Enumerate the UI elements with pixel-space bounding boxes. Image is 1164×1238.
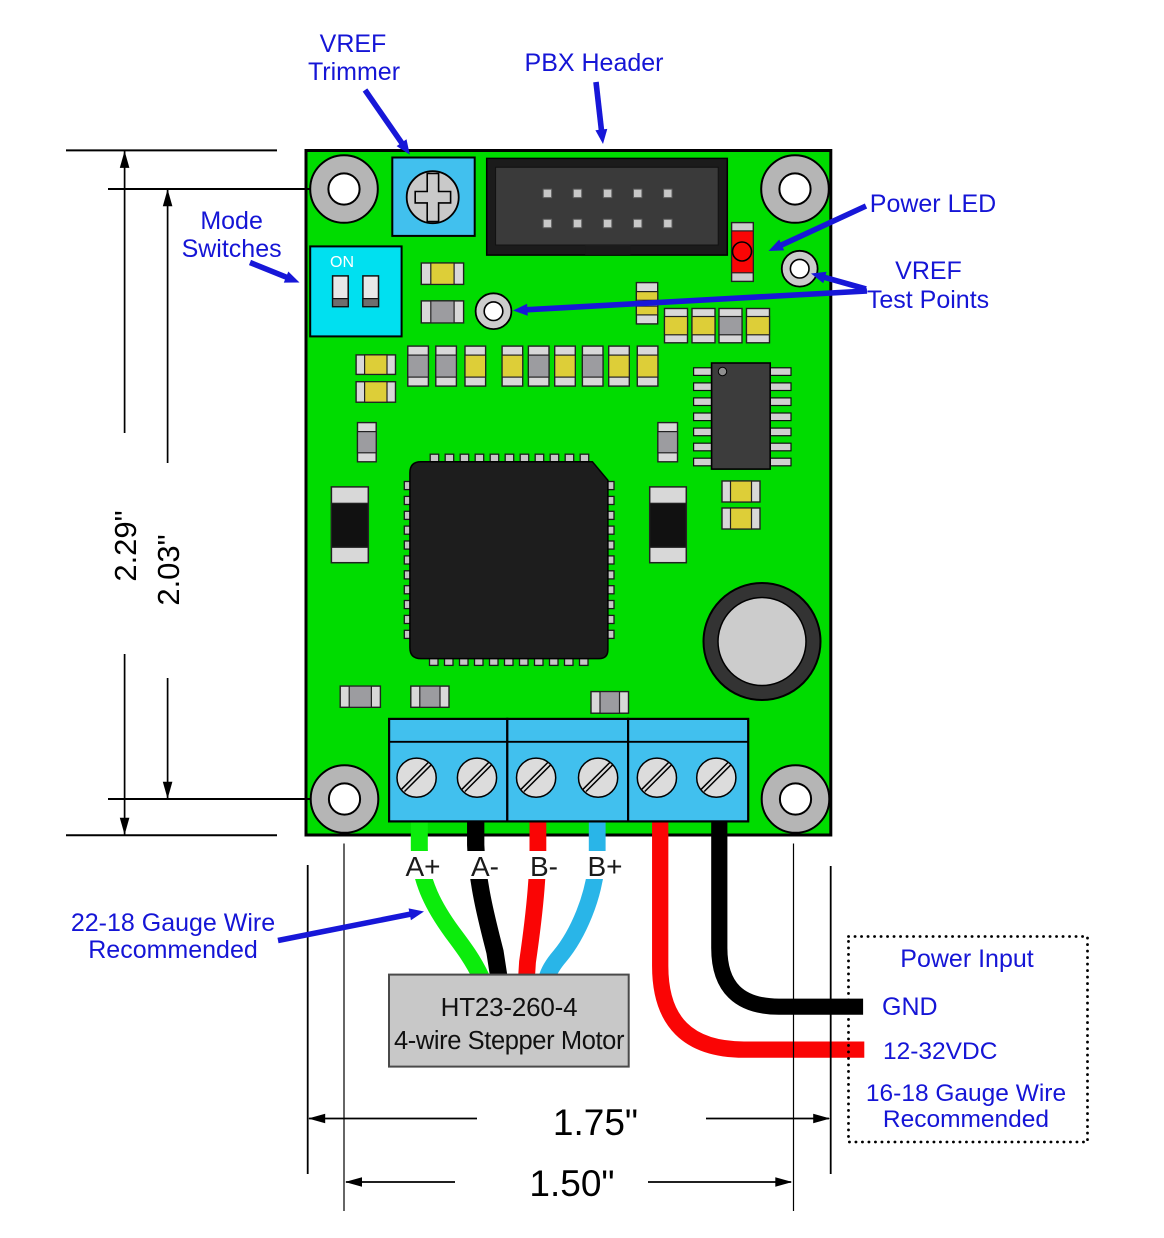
wire B+ cyan bbox=[547, 821, 597, 978]
header pin row1 col1 bbox=[543, 189, 551, 197]
VREF test point right TP2 bbox=[782, 251, 818, 287]
VREF trimmer R-trim bbox=[392, 158, 474, 236]
capacitor C1 yellow bbox=[421, 263, 463, 284]
extension line board left edge bbox=[307, 865, 309, 1174]
svg-text:Trimmer: Trimmer bbox=[308, 58, 400, 86]
capacitor C6 bbox=[747, 309, 770, 343]
arrow to right test point bbox=[811, 272, 866, 289]
wire power GND black bbox=[719, 821, 863, 1007]
SMD R/C row1 n5 bbox=[528, 346, 549, 386]
svg-text:VREF: VREF bbox=[895, 257, 962, 285]
SMD R/C row1 n9 bbox=[637, 346, 658, 386]
svg-text:22-18 Gauge Wire: 22-18 Gauge Wire bbox=[71, 909, 275, 937]
capacitor C12 yellow bbox=[722, 508, 760, 529]
IC U2 SOIC-14 bbox=[694, 363, 791, 469]
header pin row2 col3 bbox=[603, 219, 611, 227]
svg-text:Power LED: Power LED bbox=[870, 190, 996, 218]
dimension 1.75 inch bbox=[308, 1102, 830, 1143]
svg-text:Recommended: Recommended bbox=[883, 1106, 1049, 1133]
SMD R/C row1 n6 bbox=[555, 346, 576, 386]
terminal block 2 bbox=[507, 719, 628, 822]
dimension: board top edge extension bbox=[66, 149, 277, 151]
label B+ bbox=[583, 851, 627, 882]
diode D2 black bbox=[331, 487, 368, 563]
capacitor C3 bbox=[665, 309, 688, 343]
capacitor C7 yellow bbox=[356, 355, 395, 375]
arrow to trimmer bbox=[365, 90, 410, 155]
dimension line 2.03 inch bbox=[151, 189, 186, 798]
terminal screw 1 bbox=[397, 758, 436, 797]
terminal screw 2 bbox=[457, 758, 496, 797]
resistor R1 gray bbox=[421, 301, 463, 323]
wire B- red bbox=[527, 821, 538, 978]
extension line left hole center bbox=[343, 844, 345, 1212]
svg-text:2.29": 2.29" bbox=[108, 510, 143, 581]
power LED D1 bbox=[732, 223, 754, 282]
svg-text:16-18 Gauge Wire: 16-18 Gauge Wire bbox=[866, 1080, 1066, 1107]
SMD R/C row1 n1 bbox=[408, 346, 429, 386]
stepper motor box bbox=[389, 975, 629, 1067]
header pin row1 col3 bbox=[603, 189, 611, 197]
mounting hole 2 bbox=[761, 155, 829, 223]
PCB board bbox=[306, 151, 831, 836]
terminal screw 5 bbox=[637, 758, 676, 797]
arrow to mode switches bbox=[250, 263, 300, 283]
dimension line 2.29 inch bbox=[108, 151, 143, 835]
power input dotted box bbox=[849, 937, 1088, 1143]
header pin row2 col4 bbox=[634, 219, 642, 227]
header pin row1 col2 bbox=[573, 189, 581, 197]
svg-text:Switches: Switches bbox=[182, 235, 282, 263]
extension line board right edge bbox=[830, 866, 832, 1174]
svg-text:Test Points: Test Points bbox=[867, 286, 989, 314]
arrow to left test point bbox=[513, 291, 867, 316]
SMD R/C row1 n4 bbox=[502, 346, 523, 386]
svg-text:PBX Header: PBX Header bbox=[525, 49, 664, 77]
arrow to motor wires bbox=[278, 908, 424, 940]
resistor R4 gray bbox=[591, 692, 629, 714]
capacitor C9 gray bbox=[358, 423, 377, 462]
extension line right hole center bbox=[793, 844, 795, 1212]
extension line bottom hole bbox=[108, 798, 313, 800]
terminal block 1 bbox=[389, 719, 507, 822]
terminal screw 6 bbox=[697, 758, 736, 797]
capacitor C5 bbox=[719, 309, 742, 343]
svg-text:4-wire Stepper Motor: 4-wire Stepper Motor bbox=[394, 1027, 625, 1055]
svg-text:GND: GND bbox=[882, 993, 938, 1021]
header pin row2 col2 bbox=[573, 219, 581, 227]
svg-text:1.75": 1.75" bbox=[553, 1102, 638, 1143]
terminal screw 4 bbox=[579, 758, 618, 797]
header pin row2 col5 bbox=[664, 219, 672, 227]
arrow to power LED bbox=[769, 206, 867, 251]
dimension: board bottom edge extension bbox=[66, 834, 277, 836]
SMD R/C row1 n7 bbox=[582, 346, 603, 386]
svg-text:A+: A+ bbox=[405, 851, 440, 882]
electrolytic capacitor C13 bbox=[704, 583, 821, 700]
extension line top hole bbox=[108, 188, 313, 190]
resistor R2 gray bbox=[340, 686, 380, 707]
svg-text:1.50": 1.50" bbox=[529, 1163, 614, 1204]
svg-text:B+: B+ bbox=[587, 851, 622, 882]
mounting hole 3 bbox=[311, 765, 379, 833]
svg-text:Recommended: Recommended bbox=[88, 936, 258, 964]
arrow to PBX header bbox=[595, 82, 607, 144]
SMD R/C row1 n3 bbox=[465, 346, 486, 386]
label B- bbox=[522, 851, 566, 882]
capacitor C11 yellow bbox=[722, 481, 760, 502]
svg-text:A-: A- bbox=[471, 851, 499, 882]
header pin row1 col4 bbox=[634, 189, 642, 197]
wire A- black bbox=[476, 821, 499, 978]
terminal block 3 bbox=[628, 719, 748, 822]
svg-text:Power Input: Power Input bbox=[900, 945, 1033, 973]
svg-text:ON: ON bbox=[330, 254, 354, 271]
capacitor C10 gray bbox=[658, 423, 678, 462]
DIP switch SW1 mode switches bbox=[310, 246, 401, 336]
label A- bbox=[463, 851, 507, 882]
svg-text:Mode: Mode bbox=[200, 207, 263, 235]
svg-text:VREF: VREF bbox=[320, 30, 387, 58]
mounting hole 1 bbox=[310, 155, 378, 223]
capacitor C4 bbox=[692, 309, 715, 343]
diode D3 black bbox=[650, 487, 687, 563]
dimension 1.50 inch bbox=[345, 1163, 792, 1204]
IC U1 QFP-44 driver chip bbox=[404, 454, 614, 665]
wire power 12-32VDC red bbox=[660, 821, 864, 1050]
terminal screw 3 bbox=[517, 758, 556, 797]
svg-text:2.03": 2.03" bbox=[151, 534, 186, 605]
mounting hole 4 bbox=[762, 765, 830, 833]
header pin row2 col1 bbox=[543, 219, 551, 227]
svg-text:HT23-260-4: HT23-260-4 bbox=[441, 992, 578, 1022]
label A+ bbox=[401, 851, 445, 882]
SMD R/C row1 n8 bbox=[609, 346, 630, 386]
PBX header J1 bbox=[487, 158, 728, 255]
wire A+ green bbox=[419, 821, 481, 978]
header pin row1 col5 bbox=[664, 189, 672, 197]
svg-text:B-: B- bbox=[530, 851, 558, 882]
VREF test point left TP1 bbox=[476, 293, 512, 329]
svg-text:12-32VDC: 12-32VDC bbox=[883, 1038, 997, 1065]
capacitor C2 yellow bbox=[636, 283, 657, 324]
resistor R3 gray bbox=[411, 686, 449, 707]
SMD R/C row1 n2 bbox=[436, 346, 457, 386]
capacitor C8 yellow bbox=[356, 382, 395, 403]
